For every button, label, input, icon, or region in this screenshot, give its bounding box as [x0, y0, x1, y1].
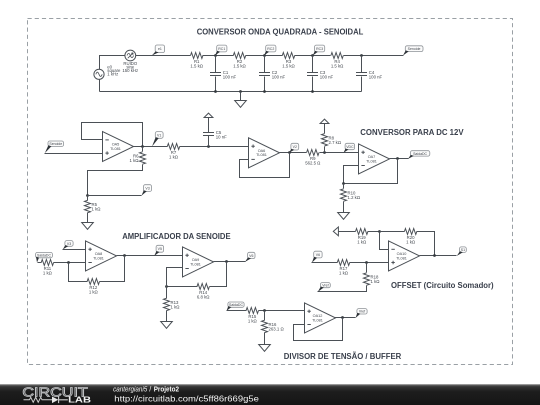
junction OA12 output — [341, 316, 344, 319]
resistor R19 1 k — [356, 229, 368, 245]
svg-text:SaidaDC: SaidaDC — [413, 152, 427, 156]
junction RC1 — [214, 54, 217, 57]
svg-text:LAB: LAB — [68, 396, 91, 405]
wire R5 bottom stem — [87, 213, 89, 223]
node flag V1 — [152, 132, 163, 147]
wire R13 bottom stem — [166, 311, 168, 322]
wire OA7 output — [390, 158, 409, 160]
wire R11 to OA8 minus input — [54, 262, 86, 264]
svg-text:V6: V6 — [316, 253, 320, 257]
wire C2 top stem — [264, 56, 266, 73]
svg-text:RC2: RC2 — [267, 47, 274, 51]
node flag RC3 — [313, 45, 325, 55]
svg-text:AMPLIFICADOR DA SENOIDE: AMPLIFICADOR DA SENOIDE — [122, 232, 230, 241]
net flag Senoide (output) — [403, 46, 423, 56]
ground below R10 — [338, 213, 350, 220]
net flag SaidaDC (output) — [408, 151, 430, 159]
svg-text:V6: V6 — [249, 254, 253, 258]
svg-text:/: / — [149, 384, 151, 393]
svg-text:TL081: TL081 — [93, 256, 104, 260]
resistor R10 1.2 k — [341, 189, 361, 201]
junction RC2 — [263, 54, 266, 57]
svg-text:1.2 kΩ: 1.2 kΩ — [348, 195, 361, 200]
wire OA5 output — [134, 146, 168, 148]
capacitor C5 10 nF — [203, 130, 227, 140]
svg-text:http://circuitlab.com/c5ff86r6: http://circuitlab.com/c5ff86r669g5e — [114, 393, 259, 403]
resistor R15 1 k — [246, 308, 258, 324]
resistor R16 263.1 — [262, 320, 285, 332]
junction R18 top — [365, 261, 368, 264]
svg-text:V3: V3 — [67, 242, 71, 246]
junction C1 bottom — [214, 90, 217, 93]
wire OA12 output — [335, 317, 356, 319]
op-amp OA6 — [249, 138, 280, 168]
junction ground top section — [239, 90, 242, 93]
resistor R4 1.5 k — [331, 53, 344, 69]
wire R10 top stem — [343, 184, 345, 189]
wire R3 to RC3 — [295, 55, 331, 57]
wire OA8 feedback down — [100, 256, 125, 282]
svg-text:100 nF: 100 nF — [320, 75, 334, 80]
svg-text:263.1 Ω: 263.1 Ω — [269, 326, 285, 331]
junction OA10 minus node — [378, 230, 381, 233]
op-amp OA10 — [389, 241, 420, 271]
wire R7 to OA6 plus input — [180, 146, 249, 148]
resistor R11 1 k — [41, 260, 53, 276]
op-amp OA7 — [359, 144, 390, 174]
svg-text:100 nF: 100 nF — [223, 75, 237, 80]
junction R8 bottom — [323, 151, 326, 154]
net flag SaidaDC (input row4) — [227, 302, 245, 311]
svg-text:Projeto2: Projeto2 — [154, 384, 179, 393]
svg-text:RC1: RC1 — [218, 47, 225, 51]
svg-text:150 kHz: 150 kHz — [122, 68, 138, 73]
junction C4 top — [360, 54, 363, 57]
net flag V6 (offset input) — [312, 251, 322, 262]
junction OA6 output — [288, 151, 291, 154]
svg-text:1 kΩ: 1 kΩ — [130, 158, 140, 163]
wire R16 bottom stem — [264, 333, 266, 345]
svg-text:100 nF: 100 nF — [272, 75, 286, 80]
wire RUIDO to R1 — [136, 55, 191, 57]
wire OA8 output to OA9 — [117, 255, 183, 257]
wire R2 to RC2 — [246, 55, 283, 57]
svg-text:Senoide: Senoide — [408, 47, 421, 51]
wire e0 bottom stem — [99, 80, 101, 92]
svg-text:1 kΩ: 1 kΩ — [92, 207, 102, 212]
svg-text:Vref: Vref — [359, 310, 365, 314]
junction C3 bottom — [311, 90, 314, 93]
voltage source e0 (square 1 kHz) — [94, 65, 121, 80]
svg-text:VDC: VDC — [346, 145, 354, 149]
svg-text:V2: V2 — [293, 145, 297, 149]
svg-text:RC3: RC3 — [316, 47, 323, 51]
resistor R17 1 k — [337, 260, 349, 276]
svg-text:100 nF: 100 nF — [369, 75, 383, 80]
section title CONVERSOR ONDA QUADRADA - SENOIDAL — [197, 28, 364, 37]
wire R8 bottom stem — [324, 147, 326, 153]
wire C4 bottom stem — [361, 77, 363, 92]
ground top section — [235, 101, 247, 108]
svg-text:1 kΩ: 1 kΩ — [406, 239, 416, 244]
svg-text:1.5 kΩ: 1.5 kΩ — [190, 63, 203, 68]
ground below R5 — [82, 223, 94, 230]
wire R19 to junction — [368, 231, 380, 233]
node flag e1 — [152, 45, 165, 56]
wire OA5 feedback loop — [82, 123, 143, 147]
net flag Senoide (input) — [45, 141, 64, 153]
resistor R20 1 k — [404, 229, 416, 245]
junction OA8 output — [123, 254, 126, 257]
wire R8 top stem — [324, 124, 326, 134]
op-amp OA8 — [86, 241, 117, 271]
svg-text:Senoide: Senoide — [49, 142, 62, 146]
supply arrow above R8 — [320, 119, 329, 123]
svg-text:V1: V1 — [157, 133, 161, 137]
resistor R8 2.7 k — [322, 134, 342, 146]
wire R10 bottom stem — [343, 202, 345, 213]
svg-text:CONVERSOR ONDA QUADRADA - SENO: CONVERSOR ONDA QUADRADA - SENOIDAL — [197, 28, 364, 37]
junction OA7 output — [396, 157, 399, 160]
node flag RC1 — [215, 45, 227, 55]
wire C3 top stem — [312, 56, 314, 73]
node flag S1 — [457, 247, 467, 256]
capacitor C1 100 nF — [210, 70, 237, 80]
svg-text:1 kΩ: 1 kΩ — [339, 270, 349, 275]
wire SaidaDC to R11 — [38, 262, 42, 264]
svg-text:TL081: TL081 — [110, 147, 121, 151]
capacitor C4 100 nF — [356, 70, 383, 80]
svg-text:SaidaDC: SaidaDC — [37, 254, 51, 258]
resistor R2 1.5 k — [233, 53, 246, 69]
wire R20 to output — [417, 232, 435, 256]
resistor R7 1 k — [167, 144, 179, 160]
noise source RUIDO (sine 150 kHz) — [122, 50, 138, 73]
wire C2 bottom stem — [264, 77, 266, 92]
section title CONVERSOR PARA DC 12V — [360, 128, 464, 137]
svg-text:1.5 kΩ: 1.5 kΩ — [331, 63, 344, 68]
junction OA9 output — [225, 260, 228, 263]
wire R1 to RC1 — [203, 55, 234, 57]
supply arrow above C5 — [204, 113, 213, 117]
wire R13 node to OA9 minus — [167, 268, 183, 287]
node flag V5 (OA8 output) — [154, 245, 163, 256]
junction OA5 output — [141, 145, 144, 148]
junction RC3 — [311, 54, 314, 57]
svg-text:TL081: TL081 — [256, 153, 267, 157]
wire V3 to OA8 plus input — [63, 249, 86, 251]
wire OA9 output — [214, 261, 246, 263]
wire R9 to OA7 plus input — [320, 152, 359, 154]
node flag V6 (OA9 output) — [245, 252, 255, 262]
svg-text:TL081: TL081 — [366, 159, 377, 163]
wire R6 top stem — [142, 147, 144, 152]
wire R16 top stem — [264, 311, 266, 321]
wire OA10 output — [420, 255, 457, 257]
node flag V2 — [289, 143, 298, 153]
node flag V3 (OA8 plus) — [63, 241, 73, 250]
junction OA8 input node — [67, 261, 70, 264]
resistor R6 1 k — [130, 152, 146, 164]
wire R14 to R13 node — [167, 286, 198, 288]
net flag VDC — [344, 143, 355, 153]
junction C5 — [207, 145, 210, 148]
node flag RC2 — [264, 45, 276, 55]
wire C5 bottom stem — [208, 136, 210, 147]
wire Senoide to OA5 plus input — [45, 153, 103, 155]
resistor R13 1 k — [164, 298, 181, 310]
svg-text:TL081: TL081 — [396, 256, 407, 260]
svg-text:1 kΩ: 1 kΩ — [371, 279, 381, 284]
wire C5 top stem — [208, 118, 210, 133]
svg-text:TL081: TL081 — [190, 262, 201, 266]
svg-text:Vref: Vref — [322, 284, 328, 288]
node flag V3 (divider) — [142, 185, 152, 196]
wire ground stem top section — [240, 92, 242, 101]
capacitor C2 100 nF — [259, 70, 286, 80]
wire divider node to V3 flag — [88, 195, 142, 197]
net flag Vref (buffer output) — [356, 309, 368, 318]
wire R15 to OA12 plus — [259, 310, 305, 312]
svg-text:1 kΩ: 1 kΩ — [169, 154, 179, 159]
wire C4 top stem — [361, 56, 363, 73]
resistor R18 1 k — [364, 273, 381, 285]
op-amp OA5 — [103, 132, 134, 162]
wire R4 to Senoide output — [344, 55, 404, 57]
wire R18 top stem — [366, 263, 368, 273]
wire OA12 feedback loop — [294, 318, 343, 341]
svg-text:cantergiani5: cantergiani5 — [113, 384, 148, 393]
wire junction down to OA10 minus — [380, 232, 389, 250]
svg-text:2.7 kΩ: 2.7 kΩ — [329, 140, 342, 145]
capacitor C3 100 nF — [307, 70, 334, 80]
junction divider node V3 — [86, 194, 89, 197]
svg-text:1.5 kΩ: 1.5 kΩ — [233, 63, 246, 68]
net arrow left (V2) — [333, 227, 338, 236]
resistor R5 1 k — [85, 200, 102, 212]
svg-text:e1: e1 — [158, 47, 162, 51]
schematic dashed border — [28, 19, 513, 365]
svg-text:1 kΩ: 1 kΩ — [43, 270, 53, 275]
wire junction to R20 — [380, 231, 405, 233]
wire R17 to OA10 plus — [350, 262, 389, 264]
wire OA6 feedback loop — [240, 153, 290, 178]
wire OA6 output — [280, 152, 307, 154]
svg-text:TL081: TL081 — [312, 318, 323, 322]
junction C2 bottom — [263, 90, 266, 93]
svg-text:6.8 kΩ: 6.8 kΩ — [197, 294, 210, 299]
op-amp OA9 — [183, 247, 214, 277]
wire OA9 feedback down — [210, 262, 227, 287]
wire R12 to input node — [69, 263, 88, 282]
net flag Vref (offset) — [318, 283, 331, 292]
junction OA10 output — [433, 254, 436, 257]
svg-text:10 nF: 10 nF — [216, 135, 227, 140]
section title OFFSET (Circuito Somador) — [391, 281, 494, 290]
wire R5 top stem — [87, 196, 89, 201]
wire R13 top stem — [166, 287, 168, 299]
svg-text:V3: V3 — [145, 187, 149, 191]
junction R13 top — [165, 285, 168, 288]
wire C3 bottom stem — [312, 77, 314, 92]
CircuitLab logo resistor-diode line — [24, 397, 53, 402]
net flag SaidaDC (input row3) — [36, 252, 53, 262]
op-amp OA12 — [305, 303, 336, 333]
wire arrow to R19 — [339, 231, 356, 233]
svg-text:SaidaDC: SaidaDC — [229, 303, 243, 307]
section title DIVISOR DE TENSAO / BUFFER — [284, 352, 402, 361]
wire OA7 feedback loop — [344, 159, 398, 184]
svg-text:1 kΩ: 1 kΩ — [357, 239, 367, 244]
svg-text:562.5 Ω: 562.5 Ω — [305, 160, 321, 165]
wire e0 top to RUIDO — [100, 56, 126, 70]
svg-text:V5: V5 — [158, 247, 162, 251]
wire C1 bottom stem — [215, 77, 217, 92]
wire C1 top stem — [215, 56, 217, 73]
section title AMPLIFICADOR DA SENOIDE — [122, 232, 230, 241]
svg-text:S1: S1 — [461, 248, 465, 252]
bottom return wire — [100, 91, 362, 93]
svg-text:1 kΩ: 1 kΩ — [89, 289, 99, 294]
resistor R1 1.5 k — [190, 53, 203, 69]
svg-text:1.5 kΩ: 1.5 kΩ — [282, 63, 295, 68]
ground below R16 — [259, 345, 271, 352]
resistor R9 562.5 — [305, 150, 321, 166]
svg-text:OFFSET (Circuito Somador): OFFSET (Circuito Somador) — [391, 281, 494, 290]
svg-text:CONVERSOR PARA DC 12V: CONVERSOR PARA DC 12V — [360, 128, 464, 137]
wire R6 bottom to divider node — [88, 165, 143, 196]
svg-text:1 kHz: 1 kHz — [107, 72, 118, 77]
resistor R14 6.8 k — [197, 284, 210, 300]
wire V6 to R17 — [312, 262, 338, 264]
ground below R13 — [161, 322, 173, 329]
wire SaidaDC to R15 — [227, 310, 247, 312]
junction R16 top — [263, 309, 266, 312]
wire R18 bottom to Vref — [318, 286, 367, 292]
resistor R12 1 k — [87, 279, 99, 295]
svg-text:1 kΩ: 1 kΩ — [171, 304, 181, 309]
svg-text:DIVISOR DE TENSÃO / BUFFER: DIVISOR DE TENSÃO / BUFFER — [284, 352, 402, 361]
junction R10 top — [342, 182, 345, 185]
resistor R3 1.5 k — [282, 53, 295, 69]
svg-text:1 kΩ: 1 kΩ — [248, 318, 258, 323]
